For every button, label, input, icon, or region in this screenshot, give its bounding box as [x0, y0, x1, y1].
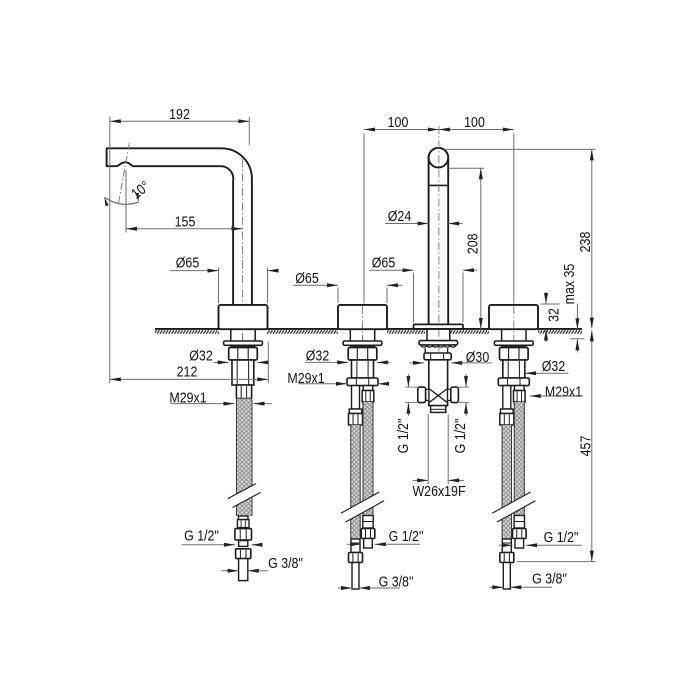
- svg-text:192: 192: [169, 106, 190, 122]
- svg-text:100: 100: [464, 114, 485, 130]
- right hose G 1/2 stub: [515, 539, 524, 549]
- dimension Ø65 (handle base plate): [413, 273, 415, 323]
- svg-text:M29x1: M29x1: [545, 384, 582, 400]
- G 3/8 tube end: [239, 559, 248, 581]
- svg-text:max 35: max 35: [561, 264, 577, 305]
- dimension Ø65 (valve 1 escutcheon): [337, 288, 339, 304]
- manifold coupling nut: [498, 378, 529, 386]
- mounting hex nut: [229, 348, 258, 361]
- dimension G 1/2 (valve 1 right hose nut): [347, 543, 361, 545]
- hose coupling nut under spout: [236, 385, 251, 399]
- right hose G 1/2 hex nut: [513, 529, 527, 539]
- right braided hose: [363, 402, 374, 516]
- svg-text:G 3/8": G 3/8": [379, 574, 414, 590]
- right hose coupling nut: [514, 391, 526, 403]
- diverter washer: [419, 341, 458, 345]
- serrated lock ring: [421, 345, 456, 347]
- right hose collar: [515, 386, 525, 391]
- left braided hose: [350, 425, 360, 539]
- dimension max 35 (deck thickness): [576, 304, 578, 330]
- dimension 155 (outlet to riser axis): [125, 170, 127, 233]
- right hose collar: [363, 386, 373, 391]
- left hose G 3/8 tube end: [503, 563, 510, 590]
- mounting hex nut: [500, 348, 529, 361]
- right hose G 1/2 stub: [364, 539, 373, 549]
- dimension Ø32 (valve 2 nut, leader): [525, 372, 569, 374]
- valve internal seat lines: [429, 389, 447, 402]
- mounting hex nut: [348, 348, 377, 361]
- dimension G 1/2 (left side port): [407, 374, 409, 387]
- dimension G 3/8 (spout hose end): [221, 570, 239, 572]
- right port nipple: [448, 389, 451, 400]
- svg-text:M29x1: M29x1: [287, 370, 324, 386]
- handle centerline: [438, 126, 440, 416]
- svg-text:212: 212: [177, 364, 198, 380]
- svg-text:Ø65: Ø65: [295, 270, 318, 286]
- diverter outlet W26x19F: [431, 406, 446, 413]
- svg-text:G 1/2": G 1/2": [389, 528, 424, 544]
- tailpiece tube through deck at x=243.0: [230, 330, 232, 341]
- dimension G 3/8 (valve 2 left hose end): [490, 586, 504, 588]
- escutcheon block valve 1 (Ø65): [338, 305, 387, 329]
- diverter valve body: [429, 360, 448, 406]
- G 3/8 hex nut: [236, 549, 251, 559]
- braided hose under spout: [236, 399, 253, 516]
- washer: [494, 341, 533, 345]
- countertop / deck (hatched): [155, 329, 582, 334]
- dimension Ø30 (diverter nut): [410, 362, 425, 364]
- svg-text:M29x1: M29x1: [169, 389, 206, 405]
- threaded shank M29x1: [352, 360, 374, 378]
- washer: [343, 341, 382, 345]
- svg-text:W26x19F: W26x19F: [412, 483, 465, 499]
- dimension 208 (handle height above deck): [449, 167, 485, 169]
- svg-text:G 1/2": G 1/2": [452, 418, 468, 453]
- right hose coupling nut: [362, 391, 374, 403]
- washer: [224, 341, 263, 345]
- svg-text:Ø24: Ø24: [388, 208, 412, 224]
- handle ball circle: [429, 148, 449, 168]
- dimension 212: [267, 342, 269, 384]
- dimension Ø24 (handle stem): [385, 223, 429, 225]
- handle base plate (Ø65 flange): [414, 324, 464, 329]
- svg-text:Ø65: Ø65: [372, 255, 395, 271]
- svg-text:G 1/2": G 1/2": [395, 418, 411, 453]
- svg-text:100: 100: [388, 114, 409, 130]
- svg-text:Ø32: Ø32: [189, 348, 212, 364]
- diverter through-deck tube: [426, 330, 428, 341]
- svg-text:G 3/8": G 3/8": [532, 571, 567, 587]
- left side port G 1/2: [418, 387, 426, 403]
- left hose end collar: [502, 539, 511, 553]
- handle joint line: [430, 184, 448, 186]
- right hose G 1/2 hex nut: [361, 529, 375, 539]
- manifold coupling nut: [347, 378, 378, 386]
- tailpiece tube through deck at x=513.8: [501, 330, 503, 341]
- right hose end collar: [514, 516, 524, 529]
- svg-text:Ø65: Ø65: [176, 255, 199, 271]
- svg-text:Ø32: Ø32: [542, 358, 565, 374]
- dimension 100-100 (hole spacing): [363, 134, 365, 304]
- spout centerline: [242, 159, 244, 420]
- G 1/2 hex nut: [235, 529, 252, 540]
- dimension Ø65 (spout escutcheon): [218, 268, 220, 303]
- diverter hex nut Ø30: [424, 353, 451, 360]
- dimension 238 (overall height above deck): [444, 148, 596, 150]
- diverter upper tube: [424, 348, 426, 353]
- right hose end collar: [363, 516, 373, 529]
- left hose G 3/8 tube end: [352, 563, 359, 590]
- escutcheon block valve 2 (Ø65): [489, 305, 538, 329]
- hose break symbol: [492, 492, 535, 522]
- tailpiece tube through deck at x=362.5: [349, 330, 351, 341]
- escutcheon block under spout (Ø65): [219, 305, 268, 329]
- right side port G 1/2: [451, 387, 459, 403]
- left port nipple: [426, 389, 429, 400]
- left hose end collar: [351, 539, 360, 553]
- dimension M29x1 (spout shank): [170, 403, 235, 405]
- angle arc 10°: [104, 197, 138, 204]
- ridged adapter: [239, 541, 248, 547]
- dimension Ø32 (spout tailpiece nut): [214, 361, 229, 363]
- left braided hose: [502, 425, 512, 539]
- handle stem U2: [429, 148, 449, 325]
- dimension 192 (spout reach): [109, 117, 111, 384]
- spout body (L-shaped tube): [107, 148, 252, 305]
- threaded shank M29x1: [503, 360, 525, 378]
- svg-text:Ø30: Ø30: [466, 349, 489, 365]
- dimension G 3/8 (valve 1 left hose end): [338, 587, 352, 589]
- svg-text:G 3/8": G 3/8": [268, 555, 303, 571]
- right braided hose: [514, 402, 525, 516]
- hose end coupling: [237, 520, 249, 528]
- left hose top tube: [503, 386, 511, 409]
- dimension W26x19F (diverter outlet): [427, 414, 429, 484]
- valve 2 centerline: [513, 306, 515, 420]
- left hose top tube: [352, 386, 360, 409]
- left hose coupling nut: [501, 409, 514, 414]
- valve 1 centerline: [362, 306, 364, 420]
- svg-text:32: 32: [546, 308, 562, 322]
- dimension G 1/2 (right side port): [465, 374, 467, 387]
- left hose G 1/2-G 3/8 hex: [349, 553, 363, 563]
- svg-text:G 1/2": G 1/2": [184, 528, 219, 544]
- hose break symbol: [341, 492, 384, 522]
- dimension G 1/2 (valve 2 right hose nut): [499, 544, 513, 546]
- svg-text:Ø32: Ø32: [306, 348, 329, 364]
- hose break symbol: [228, 484, 261, 508]
- dimension 32 (escutcheon height): [541, 303, 561, 305]
- hose end collar: [238, 516, 248, 520]
- outlet axis line tilted 10°: [118, 143, 129, 204]
- svg-text:238: 238: [577, 232, 593, 253]
- left hose coupling nut: [349, 409, 362, 414]
- svg-text:457: 457: [578, 436, 594, 457]
- dimension M29x1 (valve 2, leader): [530, 395, 583, 397]
- dimension M29x1 (valve 1 manifold): [298, 383, 347, 385]
- threaded shank M29x1 under spout: [232, 360, 254, 385]
- dimension Ø32 (valve 1 nut): [306, 361, 349, 363]
- dimension G 1/2 (spout hose nut): [182, 544, 235, 546]
- left hose G 1/2-G 3/8 hex: [500, 553, 514, 563]
- svg-text:208: 208: [465, 233, 481, 254]
- svg-text:G 1/2": G 1/2": [544, 529, 579, 545]
- dimension 457 (hose length): [517, 561, 596, 563]
- svg-text:155: 155: [175, 214, 196, 230]
